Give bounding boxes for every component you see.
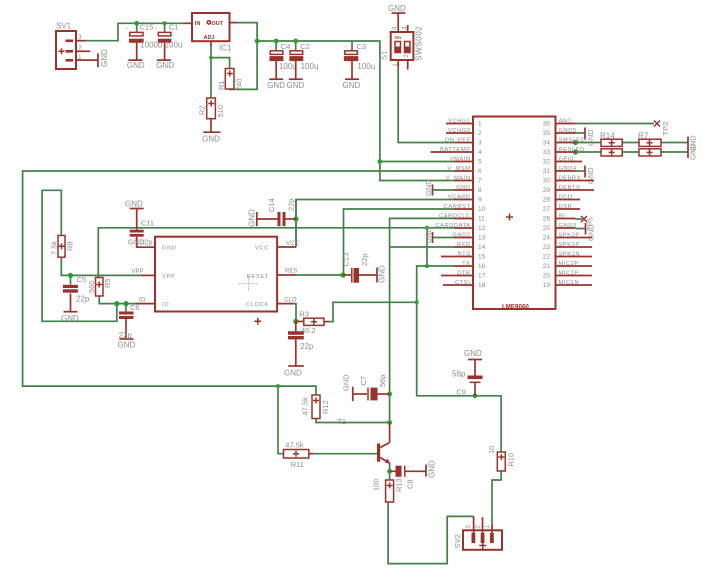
svg-text:2: 2 — [404, 54, 410, 58]
svg-text:31: 31 — [543, 168, 551, 175]
svg-text:GND: GND — [125, 200, 143, 209]
svg-text:7.5k: 7.5k — [50, 241, 59, 255]
svg-text:CARDDATA: CARDDATA — [435, 223, 470, 229]
svg-text:56p: 56p — [378, 374, 387, 387]
svg-text:GND: GND — [424, 226, 433, 243]
svg-text:RI: RI — [559, 213, 566, 219]
svg-text:100u: 100u — [279, 62, 297, 71]
svg-text:TP2: TP2 — [661, 122, 670, 136]
svg-text:1: 1 — [78, 54, 82, 61]
svg-text:VCC: VCC — [255, 246, 269, 252]
svg-text:RESET: RESET — [247, 274, 269, 280]
svg-text:33: 33 — [543, 149, 551, 156]
svg-text:34: 34 — [543, 140, 551, 147]
svg-text:100u: 100u — [301, 62, 319, 71]
svg-text:RESLED: RESLED — [559, 147, 585, 153]
svg-text:47.5k: 47.5k — [301, 397, 310, 416]
svg-text:R5: R5 — [103, 278, 112, 288]
svg-text:R1: R1 — [217, 80, 226, 90]
svg-text:35: 35 — [543, 130, 551, 137]
svg-text:CARDCLC: CARDCLC — [439, 213, 471, 219]
svg-text:C2: C2 — [300, 42, 310, 51]
svg-text:GPI0: GPI0 — [559, 156, 574, 162]
svg-text:2: 2 — [476, 525, 482, 529]
svg-text:-: - — [270, 44, 272, 51]
svg-text:GND: GND — [343, 81, 361, 90]
svg-text:DTR: DTR — [457, 270, 470, 276]
svg-text:2: 2 — [478, 130, 482, 137]
svg-text:C3: C3 — [357, 42, 367, 51]
svg-text:56p: 56p — [452, 370, 466, 379]
svg-text:CLOCK: CLOCK — [246, 302, 269, 308]
svg-text:GND: GND — [388, 4, 406, 13]
svg-text:R11: R11 — [291, 460, 304, 469]
svg-text:10: 10 — [487, 446, 496, 454]
svg-text:ANT: ANT — [559, 118, 572, 124]
svg-text:21: 21 — [543, 263, 551, 270]
svg-text:R14: R14 — [600, 132, 615, 141]
svg-text:4: 4 — [478, 149, 482, 156]
svg-text:1: 1 — [485, 525, 491, 529]
svg-text:DSR: DSR — [559, 204, 573, 210]
svg-text:GND3: GND3 — [559, 223, 577, 229]
svg-text:1: 1 — [478, 121, 482, 128]
svg-text:3: 3 — [478, 140, 482, 147]
svg-text:32: 32 — [543, 159, 551, 166]
svg-text:29: 29 — [543, 187, 551, 194]
svg-text:C11: C11 — [141, 219, 154, 228]
svg-text:ON_PFF: ON_PFF — [445, 137, 471, 143]
svg-text:GND: GND — [428, 460, 437, 478]
svg-text:C13: C13 — [342, 253, 351, 267]
svg-text:C15: C15 — [140, 23, 154, 32]
svg-text:GND: GND — [586, 167, 595, 184]
svg-text:T1: T1 — [337, 417, 346, 426]
svg-text:GND: GND — [378, 265, 387, 283]
svg-text:SV1: SV1 — [56, 22, 72, 31]
svg-text:47.5k: 47.5k — [285, 440, 304, 449]
svg-text:C4: C4 — [281, 42, 291, 51]
svg-text:14: 14 — [478, 244, 486, 251]
svg-text:GND4: GND4 — [559, 166, 577, 172]
svg-text:36: 36 — [543, 121, 551, 128]
svg-text:22p: 22p — [287, 198, 296, 211]
svg-text:MIC1N: MIC1N — [559, 280, 580, 286]
svg-text:22p: 22p — [140, 238, 153, 247]
svg-text:CTS): CTS) — [455, 280, 471, 286]
svg-text:22p: 22p — [76, 295, 90, 304]
svg-text:100: 100 — [372, 478, 381, 491]
svg-text:GND: GND — [248, 209, 257, 227]
svg-text:GND: GND — [689, 143, 698, 160]
svg-text:30: 30 — [543, 178, 551, 185]
svg-text:C14: C14 — [267, 198, 276, 212]
svg-text:R8: R8 — [66, 241, 75, 251]
svg-text:22p: 22p — [300, 342, 314, 351]
svg-text:SMSLED: SMSLED — [559, 137, 586, 143]
svg-text:GND: GND — [284, 369, 302, 378]
svg-text:18: 18 — [478, 282, 486, 289]
svg-text:-: - — [126, 25, 128, 32]
svg-text:RES: RES — [285, 269, 297, 275]
svg-text:MIC1P: MIC1P — [559, 270, 579, 276]
svg-text:GND: GND — [587, 224, 596, 241]
svg-text:R7: R7 — [638, 132, 649, 141]
svg-text:3: 3 — [78, 34, 82, 41]
svg-text:560: 560 — [87, 280, 96, 293]
svg-text:GND: GND — [162, 246, 177, 252]
svg-text:6: 6 — [478, 168, 482, 175]
svg-text:GND: GND — [267, 81, 285, 90]
svg-text:7: 7 — [478, 178, 482, 185]
svg-text:20: 20 — [543, 273, 551, 280]
svg-text:27: 27 — [543, 206, 551, 213]
svg-text:GND5: GND5 — [559, 128, 577, 134]
svg-text:DEBRX: DEBRX — [559, 175, 581, 181]
svg-text:R3: R3 — [299, 309, 309, 318]
svg-text:VCHG2: VCHG2 — [448, 128, 470, 134]
svg-text:26: 26 — [543, 216, 551, 223]
svg-text:SV2: SV2 — [453, 534, 462, 548]
svg-text:OUT: OUT — [212, 21, 224, 27]
svg-text:GND: GND — [586, 129, 595, 146]
svg-text:IO: IO — [139, 298, 146, 304]
svg-text:VCARD: VCARD — [448, 194, 471, 200]
svg-text:-: - — [345, 44, 347, 51]
svg-text:S1: S1 — [380, 51, 389, 60]
svg-text:VMAIN: VMAIN — [450, 156, 471, 162]
svg-text:GND: GND — [456, 185, 470, 191]
svg-text:CARRST: CARRST — [444, 204, 471, 210]
svg-text:VCC: VCC — [286, 241, 299, 247]
svg-text:22: 22 — [543, 254, 551, 261]
svg-text:GND: GND — [287, 81, 305, 90]
svg-text:V_MSM: V_MSM — [447, 166, 470, 172]
svg-text:VCHG1: VCHG1 — [448, 118, 470, 124]
svg-text:510: 510 — [216, 105, 225, 118]
svg-text:13: 13 — [478, 235, 486, 242]
svg-text:GND: GND — [100, 49, 109, 67]
svg-text:12: 12 — [478, 225, 486, 232]
svg-text:22p: 22p — [360, 253, 369, 266]
svg-text:R12: R12 — [321, 400, 330, 414]
svg-text:5: 5 — [478, 159, 482, 166]
svg-text:16: 16 — [478, 263, 486, 270]
svg-text:C5: C5 — [77, 275, 87, 284]
svg-text:IC1: IC1 — [219, 44, 232, 53]
svg-text:25: 25 — [543, 225, 551, 232]
svg-text:-: - — [155, 25, 157, 32]
svg-text:24: 24 — [543, 235, 551, 242]
svg-text:C1: C1 — [169, 23, 179, 32]
svg-text:TX: TX — [462, 261, 470, 267]
svg-text:LME9060: LME9060 — [502, 304, 529, 311]
svg-text:GND: GND — [61, 314, 79, 323]
svg-text:R13: R13 — [395, 478, 404, 492]
svg-text:11: 11 — [478, 216, 485, 223]
svg-text:C9: C9 — [456, 387, 466, 396]
svg-text:C8: C8 — [406, 479, 415, 489]
svg-text:3: 3 — [466, 525, 472, 529]
svg-text:15: 15 — [478, 254, 486, 261]
svg-text:GND: GND — [127, 61, 145, 70]
svg-text:VPP: VPP — [162, 274, 175, 280]
svg-text:GND: GND — [202, 135, 220, 144]
svg-text:GND: GND — [342, 374, 351, 391]
svg-text:MIC2P: MIC2P — [559, 261, 579, 267]
svg-text:IN: IN — [195, 21, 201, 27]
svg-text:GND2: GND2 — [452, 232, 470, 238]
svg-text:GND: GND — [118, 341, 136, 350]
svg-text:CLO: CLO — [284, 298, 297, 304]
svg-text:ADJ: ADJ — [204, 35, 215, 41]
svg-text:R10: R10 — [507, 453, 516, 467]
svg-text:100u: 100u — [357, 62, 375, 71]
svg-text:19: 19 — [543, 282, 551, 289]
svg-text:23: 23 — [543, 244, 551, 251]
svg-text:GND: GND — [464, 349, 482, 358]
svg-text:DCD: DCD — [559, 194, 573, 200]
svg-text:28: 28 — [543, 197, 551, 204]
svg-text:SPK1N: SPK1N — [559, 251, 581, 257]
svg-text:C7: C7 — [359, 376, 368, 386]
svg-text:22p: 22p — [119, 331, 133, 340]
svg-text:9: 9 — [478, 197, 482, 204]
svg-text:IO: IO — [162, 302, 169, 308]
svg-text:17: 17 — [478, 273, 486, 280]
svg-text:VPP: VPP — [132, 269, 144, 275]
svg-text:GND: GND — [156, 61, 174, 70]
svg-text:SWS002: SWS002 — [415, 26, 424, 61]
svg-text:2: 2 — [78, 45, 82, 52]
svg-text:100u: 100u — [165, 41, 183, 50]
svg-text:-: - — [408, 464, 410, 470]
svg-text:BATTEMP: BATTEMP — [440, 147, 470, 153]
svg-text:RTS: RTS — [458, 251, 471, 257]
svg-text:8: 8 — [478, 187, 482, 194]
svg-text:SPK2P: SPK2P — [559, 232, 580, 238]
svg-text:On: On — [395, 35, 402, 40]
svg-text:240: 240 — [235, 78, 244, 91]
svg-text:SPK1P: SPK1P — [559, 242, 580, 248]
svg-text:DEBTX: DEBTX — [559, 185, 581, 191]
svg-text:10: 10 — [478, 206, 486, 213]
svg-text:V_MAIN: V_MAIN — [446, 175, 471, 181]
svg-text:R2: R2 — [198, 105, 207, 115]
svg-text:RXD: RXD — [457, 242, 471, 248]
svg-text:GND: GND — [424, 179, 433, 196]
